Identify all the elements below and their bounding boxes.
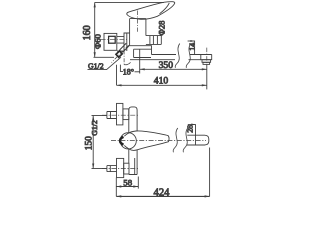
upper inlet nipple — [107, 112, 117, 119]
pipe break wave right — [186, 44, 191, 68]
dimension 424 arrows — [116, 195, 209, 197]
dimension 410 ext line left — [116, 65, 118, 86]
dimension 350 arrows — [140, 68, 207, 70]
spout pipe bottom — [130, 59, 201, 61]
svg-text:350: 350 — [159, 60, 174, 71]
body block — [124, 33, 130, 51]
spout end elbow — [201, 55, 212, 60]
dimension 150 line — [92, 116, 94, 169]
outlet axis dashed — [112, 45, 129, 62]
upper escutcheon flange — [117, 103, 123, 125]
dimension 160 extension line bottom — [94, 56, 115, 58]
label 18deg tick right — [135, 71, 140, 73]
dimension 160 arrow bottom — [94, 52, 96, 57]
dimension 58 arrows — [116, 185, 138, 187]
dimension 150 ext bottom — [92, 168, 107, 170]
svg-text:58: 58 — [123, 178, 132, 188]
dome circle (plan) — [120, 133, 136, 149]
connector escutcheon to body — [117, 36, 124, 43]
body inner edge line — [134, 158, 136, 175]
svg-text:424: 424 — [154, 187, 171, 198]
under-body step — [134, 49, 151, 57]
dimension 14 tick — [188, 40, 195, 42]
upper connector — [123, 109, 129, 120]
dimension 14 arrow — [190, 40, 194, 42]
handle end (plan) — [187, 135, 209, 145]
body column (plan) — [129, 107, 137, 175]
dimension 28 tick — [188, 124, 196, 126]
dimension 350 line — [140, 68, 207, 70]
lever handle (side view) — [127, 2, 175, 20]
dimension 160 line — [94, 2, 96, 57]
label 18deg tick left — [120, 65, 123, 72]
body centerline (vertical dash-dot) — [136, 11, 138, 32]
svg-text:Φ28: Φ28 — [157, 21, 167, 36]
svg-text:14: 14 — [188, 43, 197, 51]
lower connector — [124, 163, 129, 174]
svg-text:Φ60: Φ60 — [93, 34, 103, 49]
lower escutcheon flange — [117, 158, 124, 177]
dimension 424 right ext — [209, 148, 211, 197]
spout aerator — [203, 62, 210, 64]
dimension 28 line — [195, 124, 197, 144]
label G1/2 leader — [88, 57, 122, 69]
dimension 160 extension line top — [95, 1, 164, 3]
shower outlet cap (bold) — [116, 51, 122, 57]
handle break wave right — [183, 128, 188, 152]
dimension 58 right ext — [137, 177, 139, 189]
inlet centerline — [101, 39, 127, 41]
dimension 410 line — [117, 84, 207, 86]
dimension 424 line — [116, 195, 209, 197]
body lower ledge — [130, 46, 152, 55]
dimension 150 ext top — [92, 115, 107, 117]
dimension 410 arrows — [117, 84, 207, 86]
spout shank with rings — [146, 36, 161, 45]
angle arc 18deg — [124, 62, 131, 64]
dimension 14 line — [194, 41, 196, 55]
escutcheon flange (side view) — [104, 33, 117, 50]
svg-text:150: 150 — [85, 136, 95, 150]
lever grip (plan) — [124, 131, 169, 150]
upper inlet centerline — [102, 114, 140, 116]
dimension 160 arrow top — [94, 2, 96, 7]
svg-text:18°: 18° — [123, 67, 134, 76]
spout end mid section — [202, 60, 211, 63]
dimension 424 left ext — [115, 178, 117, 197]
svg-text:410: 410 — [154, 76, 169, 87]
lower inlet nipple — [107, 166, 117, 172]
angle reference dashed vertical — [123, 50, 125, 64]
svg-text:28: 28 — [186, 125, 195, 133]
inlet nut (bold) — [109, 36, 116, 43]
dimension 350 ext line left — [139, 49, 141, 73]
shower outlet tube (diagonal) — [120, 43, 130, 52]
dimension 150 arrows — [92, 116, 94, 169]
dimension 410 right ext — [206, 65, 208, 90]
lever pivot cap bold crescent — [120, 137, 124, 145]
svg-text:G1/2: G1/2 — [90, 120, 99, 136]
lower inlet centerline — [102, 168, 140, 170]
body bottom line — [117, 50, 124, 52]
dimension 58 line — [116, 186, 138, 188]
handle break wave left — [173, 128, 178, 152]
svg-text:160: 160 — [82, 25, 93, 40]
lever centerline (plan) — [111, 140, 206, 142]
spout pipe top — [152, 54, 212, 56]
lever inner contour — [160, 3, 170, 14]
cartridge neck — [130, 19, 146, 36]
pipe break wave left — [175, 44, 180, 68]
spout end centerline — [206, 48, 208, 65]
dimension 28 arrow — [191, 124, 195, 126]
